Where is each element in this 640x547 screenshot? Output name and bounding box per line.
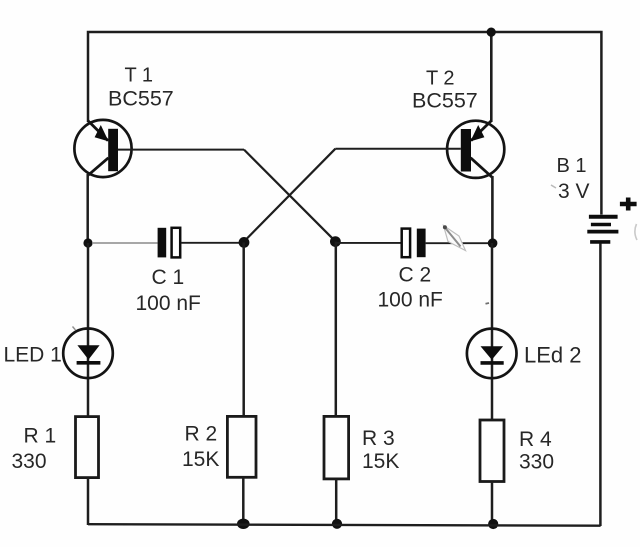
node: junction dot R4 at bottom rail (488, 519, 498, 529)
transistor Q T2 BC557: circle (447, 121, 504, 178)
transistor T2: emitter arrowhead (PNP, pointing into base bar) (470, 125, 484, 141)
wire: T1 base diagonal to node B (244, 150, 335, 242)
wire: T2 base horizontal run (335, 148, 460, 150)
node: junction dot R2 at bottom rail (237, 519, 250, 529)
wire: R4 bottom lead to ground rail (491, 482, 494, 526)
wire: node B down to R3 (335, 242, 338, 417)
wire: R2 bottom lead to ground rail (242, 477, 245, 525)
wire: left mid node to C1 left plate (faded) (92, 242, 158, 244)
artifact: small check mark left of 3 V (551, 185, 556, 188)
wire: battery negative lead to bottom rail (599, 244, 602, 527)
wire: T1 emitter drop from top rail (87, 31, 90, 122)
transistor T1: collector segment (88, 158, 109, 176)
battery B1: plus sign (620, 198, 637, 211)
battery B1: plate 3 long (587, 230, 618, 234)
svg-text:3 V: 3 V (558, 180, 590, 203)
artifact: tick above LED1 circle (73, 327, 76, 331)
svg-text:R 2: R 2 (185, 423, 218, 446)
svg-text:15K: 15K (182, 448, 219, 471)
capacitor C1: right plate (outlined) (172, 228, 181, 258)
wire: battery positive lead from top rail (600, 31, 603, 215)
svg-text:T 2: T 2 (426, 68, 455, 90)
resistor R3: body (324, 416, 349, 479)
resistor R1: body (76, 417, 99, 478)
transistor T2: emitter segment (471, 121, 492, 141)
wire: T2 emitter drop from top rail (490, 32, 493, 122)
resistor R2: body (227, 416, 256, 477)
svg-text:R 4: R 4 (519, 428, 552, 451)
svg-text:R 1: R 1 (24, 425, 57, 448)
svg-text:LEd 2: LEd 2 (524, 342, 582, 367)
wire: right column through LED2 down to R4 (491, 243, 494, 420)
svg-text:BC557: BC557 (108, 87, 174, 111)
svg-text:T 1: T 1 (125, 65, 154, 87)
LED LED2: circle (467, 329, 517, 379)
svg-text:330: 330 (519, 451, 554, 474)
node: junction dot A (C1 / R2 / T2 base) (239, 237, 250, 248)
node: junction dot on top rail above T2 (487, 27, 496, 36)
svg-text:R 3: R 3 (362, 427, 395, 450)
capacitor C2: left plate (outlined) (402, 229, 410, 258)
transistor Q T1 BC557: circle (74, 120, 131, 177)
node: junction dot R3 at bottom rail (332, 519, 342, 529)
svg-text:100 nF: 100 nF (136, 292, 201, 315)
node: junction dot at T2 collector / C2 / LED2 (488, 238, 498, 248)
battery B1: plate 4 short (negative) (590, 240, 610, 244)
svg-text:C 1: C 1 (152, 266, 185, 289)
svg-text:BC557: BC557 (412, 89, 478, 113)
wire: top supply rail (89, 31, 601, 33)
svg-text:330: 330 (12, 450, 47, 473)
wire: T1 base horizontal run (118, 149, 244, 151)
wire: T1 collector down to left mid node (86, 174, 89, 243)
wire: left column through LED1 down to R1 (87, 243, 90, 417)
LED LED2: cathode bar (481, 361, 504, 365)
transistor T1: base bar (108, 129, 118, 171)
wire: node B to C2 left plate (335, 242, 401, 244)
battery B1: plate 2 short (591, 223, 611, 226)
node: junction dot at T1 collector / C1 / LED1 (83, 238, 92, 247)
transistor T2: collector segment (471, 158, 493, 178)
svg-text:C 2: C 2 (399, 264, 432, 287)
wire: node A down to R2 (242, 242, 245, 417)
artifact: speck right of C2 value (486, 302, 490, 305)
capacitor C1: left plate (solid) (158, 228, 167, 258)
artifact: pen scribble near C2 (443, 225, 466, 250)
LED LED1: circle (63, 329, 113, 379)
svg-text:LED 1: LED 1 (4, 344, 62, 367)
capacitor C2: right plate (solid) (417, 229, 426, 258)
battery B1: plate 1 long (positive) (589, 215, 618, 219)
artifact: faint parenthesis right edge (635, 224, 637, 240)
svg-text:15K: 15K (362, 450, 399, 473)
wire: C2 right plate to right mid node (426, 242, 493, 244)
LED LED1: triangle (anode) (77, 345, 99, 359)
LED LED1: cathode bar (77, 361, 101, 365)
wire: R3 bottom lead to ground rail (335, 479, 338, 525)
transistor T1: emitter segment (88, 121, 108, 141)
wire: R1 bottom lead to ground rail (87, 478, 90, 526)
svg-text:100 nF: 100 nF (378, 289, 443, 312)
resistor R4: body (480, 420, 504, 482)
svg-text:B 1: B 1 (557, 155, 587, 177)
wire: T2 base diagonal to node A (244, 149, 335, 242)
wire: C1 right plate to node A (181, 242, 244, 244)
wire: bottom ground rail (88, 524, 601, 526)
transistor T2: base bar (461, 129, 471, 172)
node: junction dot B (C2 / R3 / T1 base) (330, 236, 341, 247)
transistor T1: emitter arrowhead (PNP, pointing into base bar) (95, 125, 109, 141)
wire: T2 collector down to right mid node (491, 176, 494, 243)
LED LED2: triangle (anode) (481, 346, 504, 360)
